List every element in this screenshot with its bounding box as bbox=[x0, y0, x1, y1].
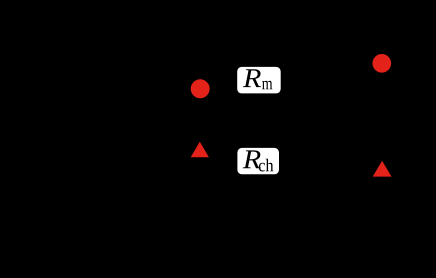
wire: top rail bbox=[60, 59, 382, 61]
node C (red triangle marker, left) bbox=[191, 142, 209, 158]
node A (red dot on R_m branch) bbox=[191, 79, 210, 98]
wire: left vertical branch bbox=[59, 60, 61, 220]
label R_ch (value label for resistor R_ch) bbox=[237, 148, 279, 174]
node D (red triangle marker, right) bbox=[373, 161, 392, 177]
label R_m (value label for resistor R_m) bbox=[237, 67, 281, 94]
node B (red dot on right branch) bbox=[372, 54, 391, 73]
wire: bottom rail bbox=[60, 219, 382, 221]
ground bbox=[50, 220, 70, 240]
resistor R_m bbox=[200, 74, 382, 88]
wire: branch at x=200 bbox=[199, 60, 201, 220]
wire: branch at x=382 bbox=[381, 60, 383, 220]
resistor R_ch bbox=[200, 154, 382, 168]
